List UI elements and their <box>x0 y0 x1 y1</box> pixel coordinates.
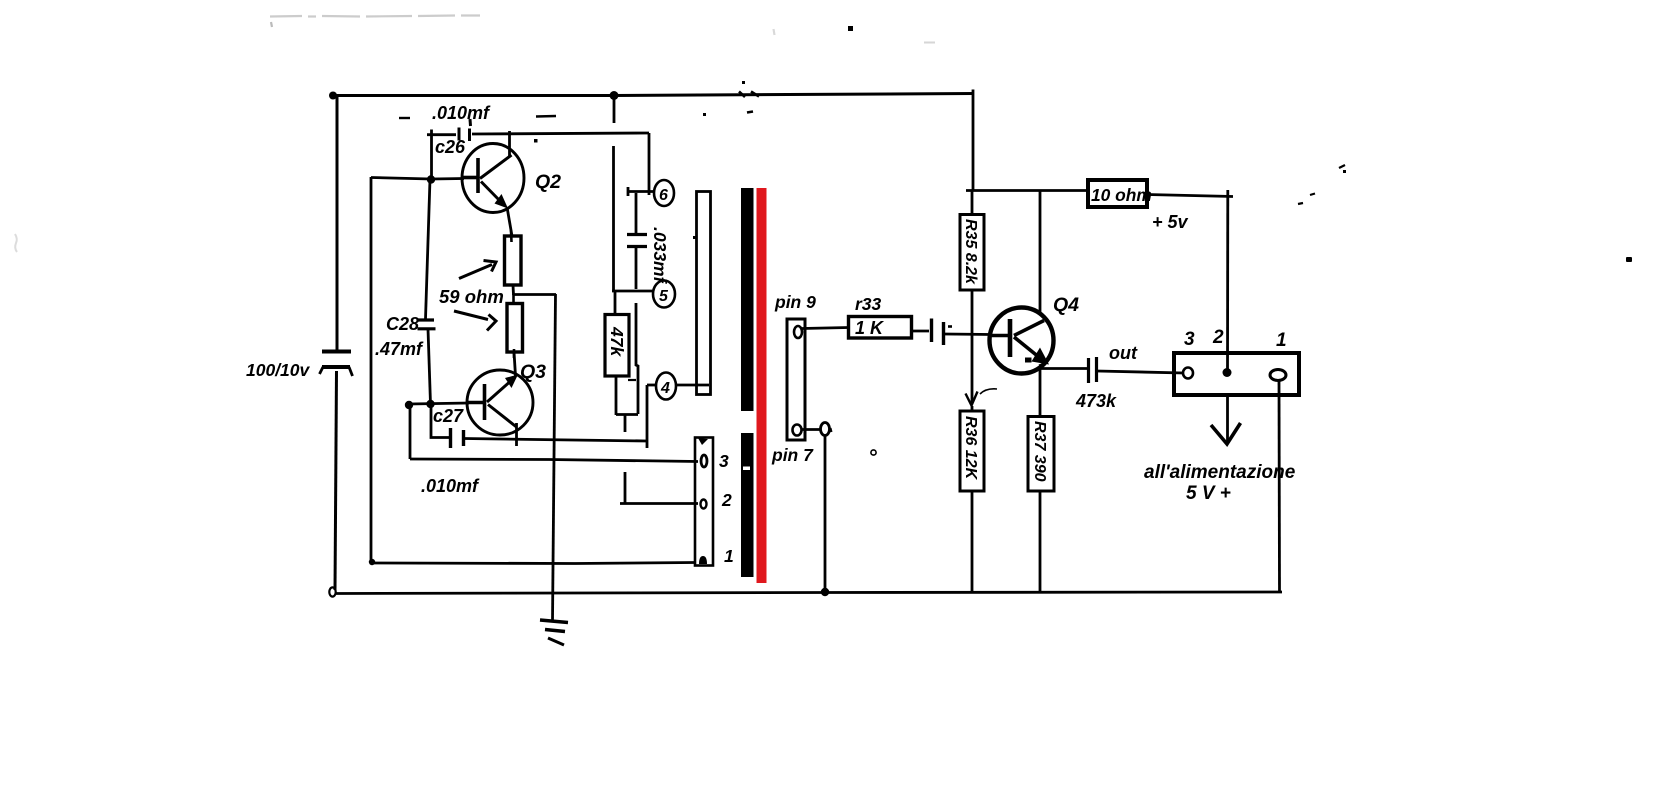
wire pin7 stub <box>802 428 820 431</box>
wire Q4 collector rail <box>1039 190 1042 313</box>
svg-text:pin 7: pin 7 <box>771 445 814 465</box>
stray dash <box>747 112 753 113</box>
transistor Q3 <box>467 370 533 446</box>
svg-text:473k: 473k <box>1075 391 1117 411</box>
stray dash left of pin4 <box>628 379 636 381</box>
wire to pin 5 <box>612 290 653 293</box>
wire ground stem <box>553 294 556 621</box>
svg-text:Q2: Q2 <box>535 171 561 193</box>
wire rail from top junction to xfmr-5 <box>613 96 616 123</box>
resistor r33 1K box <box>849 317 912 339</box>
stray dot near Q2 <box>534 139 538 143</box>
wire C28 riser lower <box>428 329 431 404</box>
wire left rail to bottom <box>335 371 337 590</box>
node corner dot <box>369 559 375 565</box>
svg-text:3: 3 <box>1184 329 1195 350</box>
stray marks top right area <box>1298 165 1345 204</box>
node Q2 base junction <box>427 175 435 183</box>
wire base junction drop with arrow <box>971 334 974 403</box>
svg-text:R35 8.2k: R35 8.2k <box>962 219 979 285</box>
transistor Q2 <box>462 131 524 213</box>
wire riser to pin 6 <box>648 133 651 195</box>
svg-text:.47mf: .47mf <box>375 339 424 359</box>
wire out pin1 drop <box>1278 381 1281 592</box>
svg-text:5: 5 <box>659 288 669 305</box>
wire Q2 emitter ext <box>507 207 512 236</box>
svg-text:4: 4 <box>660 380 670 397</box>
ground <box>540 620 568 645</box>
node pin 9 <box>794 326 802 338</box>
svg-text:47k: 47k <box>607 326 627 357</box>
wire c26 riser <box>430 130 433 181</box>
node pin 7 <box>793 425 802 436</box>
svg-text:6: 6 <box>659 187 668 204</box>
node out pin 1 <box>1270 370 1286 381</box>
node junction bottom <box>821 588 829 596</box>
arrow to upper 59ohm <box>459 261 496 279</box>
svg-text:c27: c27 <box>433 406 464 426</box>
svg-text:Q4: Q4 <box>1053 294 1079 316</box>
resistor R35 8.2k <box>971 191 974 215</box>
wire bottom rail <box>335 592 1282 594</box>
node junction top-mid <box>610 91 619 100</box>
wire Q3 base <box>409 403 469 404</box>
wire second rail <box>370 177 373 562</box>
wire sec pin2 stub <box>624 472 627 504</box>
svg-text:r33: r33 <box>855 294 882 314</box>
svg-text:100/10v: 100/10v <box>246 360 311 380</box>
wire riser c27-to-pin4 <box>646 385 649 448</box>
wire arrow to alimentazione <box>1226 395 1229 443</box>
svg-text:c26: c26 <box>435 137 466 157</box>
output connector box <box>1174 353 1299 395</box>
stray gray dashes top <box>270 16 775 36</box>
capacitor C28 riser upper <box>426 179 431 319</box>
wire pin4 left stub <box>647 384 657 387</box>
pin9/pin7 connector <box>787 319 805 440</box>
wire pin1 net (to secondary connector pin 1) <box>371 563 695 564</box>
stray dot <box>693 236 696 239</box>
capacitor C28 <box>418 320 436 329</box>
wire c26 left stub <box>427 133 456 136</box>
wire 47k bottom L <box>615 376 618 415</box>
wire Q4 emitter to out <box>1040 364 1042 369</box>
capacitor at Q4 base <box>932 319 944 346</box>
stray dash right of .010mf <box>536 115 556 118</box>
capacitor c27 <box>451 428 464 448</box>
svg-text:59 ohm: 59 ohm <box>439 286 504 307</box>
stray black square top right <box>848 26 853 31</box>
svg-text:.010mf: .010mf <box>421 476 480 496</box>
svg-text:Q3: Q3 <box>520 361 546 383</box>
svg-text:R36 12K: R36 12K <box>962 416 979 481</box>
svg-text:2: 2 <box>1212 327 1224 348</box>
svg-text:10 ohm: 10 ohm <box>1091 185 1152 205</box>
wire 1K to cap <box>912 330 929 333</box>
node c27 junction right <box>426 400 434 408</box>
resistor 10 ohm <box>1088 180 1147 207</box>
arrow to lower 59ohm <box>454 311 496 331</box>
stray tiny circle <box>871 450 876 455</box>
resistor R37 390 <box>1028 417 1054 492</box>
node out pin 3 <box>1183 368 1193 379</box>
core red bar <box>757 188 767 583</box>
svg-text:.010mf: .010mf <box>432 103 491 123</box>
wire out to connector <box>1097 371 1184 373</box>
wire between 59ohm resistors <box>512 285 515 295</box>
node sec pin 3 <box>701 455 707 467</box>
svg-text:1: 1 <box>1276 330 1287 351</box>
wire 10ohm to right corner <box>1147 195 1233 197</box>
wire top-right corner down <box>972 90 975 192</box>
wire pin-6 stub <box>627 190 654 193</box>
svg-text:all'alimentazione: all'alimentazione <box>1144 462 1296 483</box>
svg-text:2: 2 <box>721 490 732 510</box>
svg-text:5 V +: 5 V + <box>1186 483 1231 504</box>
capacitor .033mf <box>627 193 647 289</box>
wire emitter drop to R37 <box>1039 368 1042 417</box>
stray scratch <box>980 389 997 394</box>
node pin 6 <box>654 180 674 206</box>
core black bar upper <box>741 188 754 411</box>
svg-text:1 K: 1 K <box>855 318 885 338</box>
node pin 5 <box>653 281 675 308</box>
node junction top-left <box>329 92 337 100</box>
node bottom-left terminal <box>329 587 335 596</box>
stray slash ticks on top wire <box>739 92 759 98</box>
node pin 4 <box>656 373 676 400</box>
svg-text:1: 1 <box>724 546 734 566</box>
svg-text:out: out <box>1109 343 1138 363</box>
capacitor 473k <box>1089 357 1097 383</box>
node sec pin 2 <box>701 500 707 509</box>
wire c27 drop-left to pin3 net <box>409 405 412 459</box>
capacitor c26 <box>459 119 471 141</box>
wire right of 47k <box>636 303 638 414</box>
wire +5v feed horizontal <box>966 189 1089 192</box>
svg-text:C28: C28 <box>386 314 419 334</box>
secondary connector box <box>695 438 713 566</box>
wire cap to Q4 base <box>944 333 992 336</box>
svg-text:3: 3 <box>719 451 729 471</box>
node sec pin 1 <box>699 556 707 564</box>
node c27 junction left <box>405 401 413 409</box>
svg-text:pin 9: pin 9 <box>774 292 816 312</box>
svg-text:+ 5v: + 5v <box>1152 212 1189 232</box>
svg-text:.033mf: .033mf <box>650 227 670 285</box>
wire pin4 right stub <box>676 384 709 387</box>
wire c27 to riser-4 <box>464 439 647 442</box>
resistor R36 12K <box>960 411 984 491</box>
wire left rail down from top <box>336 95 339 352</box>
wire Q2 base net <box>371 178 464 180</box>
wire pin7 drop <box>824 435 827 591</box>
core black bar lower <box>741 433 754 577</box>
node pin7 outer terminal <box>821 423 830 436</box>
wire pin9 to r33 <box>802 328 849 329</box>
wire top rail <box>333 94 974 96</box>
resistor 59ohm upper <box>505 236 522 285</box>
resistor 47k <box>614 292 617 315</box>
wire c27 branch <box>431 404 449 438</box>
wire stub below L <box>624 415 627 432</box>
svg-text:R37 390: R37 390 <box>1031 421 1048 482</box>
stray dash left of .010mf <box>399 117 410 119</box>
wire c26 to riser-6 <box>472 133 649 134</box>
primary winding bracket <box>697 192 711 395</box>
wire +5v rail down <box>1226 190 1229 372</box>
capacitor 100/10v <box>320 352 353 377</box>
wire pin3 net <box>410 459 698 462</box>
resistor 59ohm lower <box>507 304 523 353</box>
node out pin 2 <box>1223 368 1232 377</box>
stray dot <box>703 113 706 116</box>
transistor Q4 <box>990 308 1054 374</box>
